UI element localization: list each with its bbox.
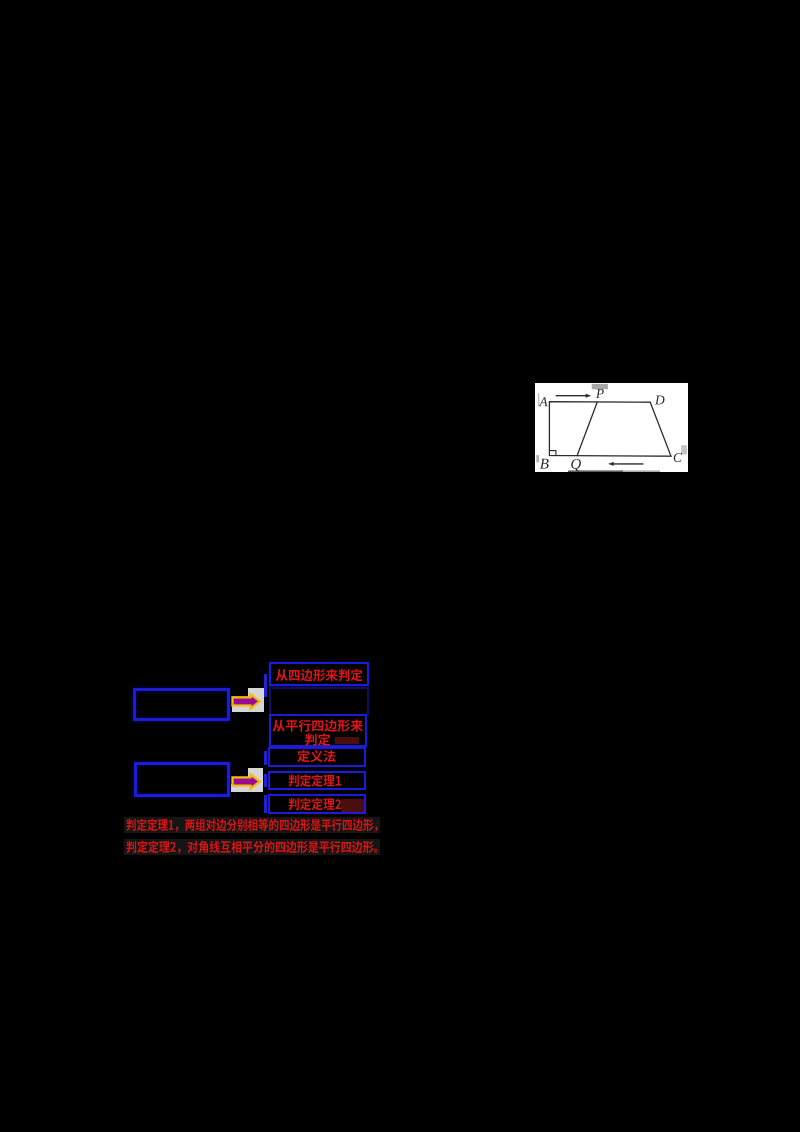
arrow2 gray backing lower band [231, 784, 248, 792]
right box 4 [268, 747, 366, 767]
label P [596, 389, 604, 398]
arrow 2 [228, 770, 266, 794]
bracket line [264, 774, 267, 787]
text 从平行四边形来 [273, 719, 363, 731]
text 从四边形来判定 [276, 669, 363, 681]
arrow1 gray backing [248, 688, 264, 712]
faint halo behind red line 1 [124, 817, 380, 834]
gray highlight above P [592, 384, 608, 389]
gray smudge near C [681, 445, 687, 454]
text 判定定理1 [288, 774, 340, 786]
right box 5 [268, 771, 366, 791]
trapezoid ABCD [550, 402, 672, 457]
red line 2 [126, 841, 377, 854]
faint halo behind red line 2 [124, 839, 380, 856]
left box 1 [133, 688, 230, 721]
dark red answer blank in box 3 [335, 737, 359, 745]
geometry figure: trapezoid ABCD with moving points P,Q [535, 383, 688, 472]
vertex labels [539, 389, 682, 471]
left box 2 [134, 762, 230, 797]
white image background [535, 383, 688, 472]
label Q [572, 459, 582, 471]
bracket line [264, 674, 267, 697]
arrow1 gray backing lower band [232, 705, 248, 713]
label A [539, 398, 548, 407]
red line 1 [126, 819, 377, 832]
segment PQ [577, 402, 597, 456]
right angle mark at B [550, 451, 556, 456]
arrow2 gray backing [248, 768, 263, 792]
label C [674, 453, 682, 462]
text 定义法 [297, 750, 335, 762]
right box 2 (empty) [269, 687, 370, 716]
label D [655, 396, 665, 405]
gray tick left of A [538, 394, 539, 407]
label B [540, 459, 549, 469]
dark red answer blank in box 6 [341, 799, 364, 812]
dark scuff along bottom edge [568, 471, 623, 473]
right box 1 [269, 662, 370, 686]
bracket line [264, 795, 267, 813]
right box 6 [268, 794, 366, 814]
gray tick left of B [537, 455, 540, 462]
top arrow (P moves right) [556, 395, 587, 397]
bottom arrow (Q moves left) [613, 463, 644, 465]
text 判定 [305, 733, 330, 745]
bracket line [264, 751, 267, 765]
arrow 1 [228, 690, 266, 714]
right box 3 [269, 714, 368, 747]
text 判定定理2 [288, 798, 341, 810]
